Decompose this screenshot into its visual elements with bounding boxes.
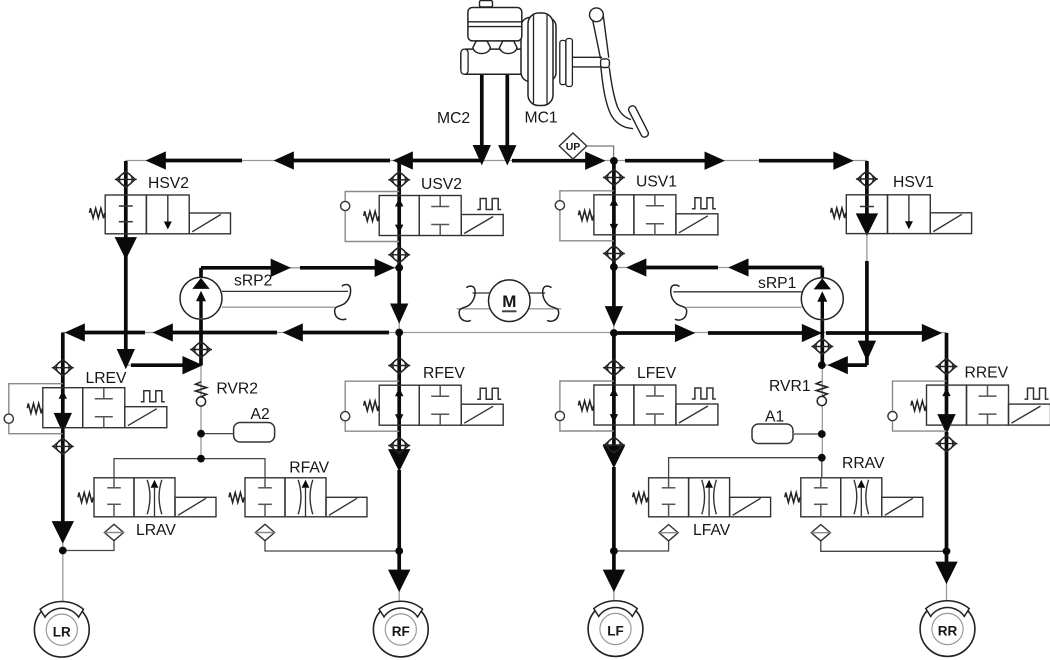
wire A2 link xyxy=(201,433,234,435)
valve LRAV xyxy=(78,478,216,517)
wire secondary line y=332.5 xyxy=(63,332,947,334)
node A2 junction xyxy=(197,430,205,438)
wire sRP1 column xyxy=(821,268,823,458)
wire HSV2 column flow xyxy=(124,161,128,240)
wire secondary line right flow xyxy=(616,331,678,335)
wire sRP2 inlet flow xyxy=(199,320,203,365)
wire RRAV supply xyxy=(821,458,823,478)
wire LFAV outlet to LF xyxy=(614,541,669,552)
cylinder body xyxy=(461,49,535,74)
booster shell xyxy=(521,18,556,82)
wire main line left flow xyxy=(164,159,242,163)
wire RFAV outlet to RF xyxy=(265,540,399,551)
reservoir xyxy=(468,8,522,41)
relief valve RVR2 xyxy=(196,382,207,406)
node main/UP junction xyxy=(610,157,618,165)
svg-text:HSV1: HSV1 xyxy=(893,174,934,191)
svg-text:LRAV: LRAV xyxy=(136,522,176,539)
wire RREV column xyxy=(946,333,948,603)
pedal arm upper xyxy=(593,20,601,59)
filter USV1 top xyxy=(603,169,625,185)
node LR junction xyxy=(59,547,67,555)
svg-text:MC1: MC1 xyxy=(525,110,558,127)
valve HSV1 xyxy=(831,195,972,234)
wire sRP1 outlet flow xyxy=(820,268,824,278)
wheel LR xyxy=(34,601,89,657)
shaft sRP1 xyxy=(671,285,802,320)
node RF junction xyxy=(395,547,403,555)
wire sRP2 column xyxy=(200,268,202,459)
rear discs xyxy=(560,40,566,84)
node RR junction xyxy=(943,547,951,555)
wire USV2 column flow xyxy=(397,161,401,268)
svg-text:UP: UP xyxy=(566,141,581,153)
master cylinder assembly xyxy=(461,1,573,106)
pedal arm lower xyxy=(601,68,633,129)
valve RREV xyxy=(888,381,1050,431)
svg-text:RREV: RREV xyxy=(965,365,1009,382)
svg-text:A2: A2 xyxy=(251,406,270,423)
filter RREV top xyxy=(936,358,958,374)
filter USV2 bottom xyxy=(388,247,410,263)
wheel LF xyxy=(588,601,643,657)
wire sRP2 outlet to USV2 column xyxy=(201,267,399,269)
valve RFEV xyxy=(341,381,504,431)
wheel RR xyxy=(920,601,975,657)
node HSV1 return junction xyxy=(818,361,826,369)
svg-text:RFEV: RFEV xyxy=(423,365,465,382)
filter HSV2 top xyxy=(115,171,137,187)
UP marker xyxy=(559,133,587,159)
svg-text:LF: LF xyxy=(607,624,624,639)
svg-text:LFAV: LFAV xyxy=(693,522,731,539)
pump sRP2 xyxy=(180,277,222,319)
brake pedal xyxy=(573,8,650,138)
svg-text:HSV2: HSV2 xyxy=(148,175,189,192)
wire sRP2 outlet flow xyxy=(199,268,203,278)
node LFAV supply junction xyxy=(818,454,826,462)
wire UP marker branch xyxy=(587,146,614,161)
node secondary left junction xyxy=(395,329,403,337)
filter HSV1 top xyxy=(856,171,878,187)
filter USV2 top xyxy=(388,172,410,188)
svg-text:USV1: USV1 xyxy=(636,174,677,191)
reservoir cap xyxy=(480,1,493,7)
small down arrow USV2 xyxy=(395,225,403,233)
svg-text:sRP1: sRP1 xyxy=(758,275,796,292)
shaft sRP2 xyxy=(222,285,351,320)
wire secondary line left flow xyxy=(79,331,145,335)
pedal pivot block xyxy=(601,59,610,68)
node sRP2 outlet junction xyxy=(395,264,403,272)
svg-text:M: M xyxy=(502,292,516,311)
accumulator A2 xyxy=(234,423,275,443)
svg-text:RR: RR xyxy=(938,624,958,639)
relief valve RVR1 xyxy=(816,381,827,405)
svg-text:RRAV: RRAV xyxy=(842,455,885,472)
svg-text:LREV: LREV xyxy=(86,370,128,387)
valve LREV xyxy=(4,384,167,434)
svg-text:sRP2: sRP2 xyxy=(234,273,272,290)
valve USV2 xyxy=(341,192,504,242)
valve RFAV xyxy=(229,478,367,517)
push rod xyxy=(573,56,603,58)
wire LRAV/RFAV supply xyxy=(114,459,265,478)
filter RFEV top xyxy=(388,357,410,373)
pump sRP1 xyxy=(801,278,843,320)
node sRP1 outlet junction xyxy=(610,263,618,271)
wheel RF xyxy=(373,601,428,657)
filter LFAV bottom xyxy=(659,525,678,541)
valve RRAV xyxy=(785,478,923,517)
svg-text:RVR1: RVR1 xyxy=(769,378,811,395)
wire main line right flow xyxy=(512,159,588,163)
pedal top circle xyxy=(590,8,604,22)
svg-text:LR: LR xyxy=(53,624,71,639)
wire LREV column xyxy=(62,333,64,603)
svg-text:RVR2: RVR2 xyxy=(216,381,258,398)
motor M xyxy=(457,280,562,322)
svg-text:RFAV: RFAV xyxy=(289,460,329,477)
wire USV2/RFEV column xyxy=(398,161,400,603)
pedal pad xyxy=(627,105,649,139)
wire HSV2 column xyxy=(126,161,201,366)
wire RREV column flow xyxy=(945,333,949,416)
filter RREV bottom xyxy=(936,435,958,451)
node A1 junction xyxy=(818,430,826,438)
svg-text:A1: A1 xyxy=(765,409,784,426)
filter sRP1 inlet xyxy=(811,338,833,354)
small down arrow USV1 xyxy=(610,224,618,232)
wire RRAV outlet to RR xyxy=(821,541,947,552)
wire MC1 down line xyxy=(505,75,509,148)
filter LRAV bottom xyxy=(104,524,123,540)
filter USV1 bottom xyxy=(603,245,625,261)
reservoir port left xyxy=(473,41,491,54)
valve LFAV xyxy=(633,478,771,517)
wire sRP1 outlet to USV1 column xyxy=(614,267,822,269)
wire HSV1 column flow xyxy=(865,161,869,216)
valve HSV2 xyxy=(90,195,231,234)
wire MC2 down line xyxy=(480,75,484,148)
wire USV1 column flow xyxy=(612,161,616,267)
wire HSV1 column xyxy=(822,161,867,366)
wire main supply line y=160.5 xyxy=(126,160,867,162)
filter RFAV bottom xyxy=(255,524,274,540)
filter LFEV bottom xyxy=(603,437,625,453)
svg-text:LFEV: LFEV xyxy=(637,365,677,382)
wire USV1/LFEV column xyxy=(613,161,615,602)
svg-text:USV2: USV2 xyxy=(421,176,462,193)
filter LREV bottom xyxy=(52,438,74,454)
thin pipe network xyxy=(63,161,947,603)
wire LFAV supply xyxy=(669,458,822,478)
node LRAV supply junction xyxy=(197,455,205,463)
node secondary right junction xyxy=(610,329,618,337)
filter LREV top xyxy=(52,360,74,376)
filter sRP2 inlet xyxy=(190,341,212,357)
filter RRAV bottom xyxy=(811,525,830,541)
node LF junction xyxy=(610,547,618,555)
valve USV1 xyxy=(555,191,718,241)
reservoir port right xyxy=(500,41,518,54)
wire sRP1 inlet flow xyxy=(820,321,824,366)
accumulator A1 xyxy=(752,424,793,444)
wire A1 link xyxy=(794,433,822,435)
filter LFEV top xyxy=(603,360,625,376)
filter RFEV bottom xyxy=(388,437,410,453)
valve LFEV xyxy=(555,381,718,431)
wire LREV column flow xyxy=(61,333,65,415)
svg-text:RF: RF xyxy=(392,624,410,639)
bold flow lines xyxy=(55,75,955,589)
wire LRAV outlet to LR xyxy=(63,540,114,550)
svg-text:MC2: MC2 xyxy=(437,110,470,127)
